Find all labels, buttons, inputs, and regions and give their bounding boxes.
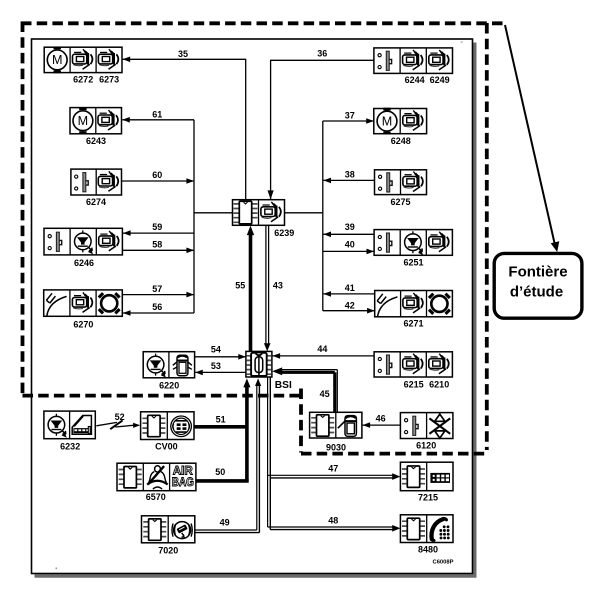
wire 43 (double line) [265, 225, 267, 345]
wire 54 [195, 356, 246, 358]
svg-text:6215: 6215 [404, 379, 424, 389]
svg-text:48: 48 [328, 515, 338, 525]
component 6120 window lifter unit [400, 413, 453, 439]
svg-text:AIR: AIR [173, 466, 194, 478]
wire link left-bus to 6239 [194, 212, 233, 214]
wire 61 [122, 119, 194, 121]
svg-text:C6008P: C6008P [433, 560, 454, 566]
svg-text:52: 52 [115, 412, 125, 422]
svg-text:51: 51 [216, 415, 226, 425]
frontier-of-study label box [494, 253, 582, 318]
svg-text:60: 60 [152, 170, 162, 180]
svg-text:49: 49 [220, 518, 230, 528]
component 6274 switch unit [71, 169, 122, 195]
frame shadow [35, 43, 475, 577]
component 7020 siren ECU [142, 516, 195, 543]
svg-text:35: 35 [178, 49, 188, 59]
svg-text:58: 58 [152, 239, 162, 249]
component 7215 display unit [400, 462, 453, 491]
dashed study boundary bottom-left segment [23, 394, 303, 398]
wire 50 (thick) [196, 479, 249, 483]
svg-text:6210: 6210 [429, 379, 449, 389]
component CV00 steering column unit [141, 412, 194, 440]
svg-text:7215: 7215 [418, 492, 438, 502]
wire 59 [123, 232, 194, 234]
wire 46 [363, 424, 401, 426]
svg-text:39: 39 [345, 222, 355, 232]
svg-text:59: 59 [152, 222, 162, 232]
svg-text:9030: 9030 [326, 443, 346, 453]
svg-text:6274: 6274 [86, 197, 106, 207]
dashed study boundary left [21, 22, 25, 395]
svg-text:61: 61 [152, 109, 162, 119]
svg-text:42: 42 [345, 301, 355, 311]
svg-text:41: 41 [345, 283, 355, 293]
wire 56 [123, 312, 194, 314]
wire 39 [323, 233, 374, 235]
svg-text:44: 44 [317, 344, 327, 354]
svg-text:54: 54 [211, 344, 221, 354]
dashed study boundary bottom-right segment [301, 452, 488, 456]
wire 49 (double line) [195, 529, 257, 531]
svg-text:55: 55 [235, 281, 245, 291]
svg-text:45: 45 [320, 389, 330, 399]
dashed study boundary top [21, 21, 505, 25]
wire 42 [323, 310, 374, 312]
svg-text:CV00: CV00 [155, 441, 178, 451]
wire 35 [123, 58, 246, 60]
wire link 6239 to right-bus [285, 212, 323, 214]
component 6215/6210 switch units [374, 352, 452, 377]
svg-text:6271: 6271 [403, 319, 423, 329]
svg-text:6244: 6244 [405, 75, 425, 85]
svg-text:37: 37 [345, 111, 355, 121]
component 9030 body ECU [310, 412, 362, 438]
wire 38 [323, 179, 374, 181]
wire thick bus to BSI bottom [245, 387, 249, 481]
svg-text:7020: 7020 [158, 545, 178, 555]
component 6271 washer/heater unit [375, 291, 453, 317]
wire 37 [323, 120, 373, 122]
component 6248 motor unit [374, 108, 427, 135]
wire 41 [323, 293, 374, 295]
component BSI control unit [246, 351, 272, 377]
svg-text:d’étude: d’étude [510, 284, 563, 301]
svg-text:6570: 6570 [146, 492, 166, 502]
component 6251 sensor unit [374, 230, 452, 256]
dashed study boundary right [485, 23, 489, 450]
wire 51 (thick) [194, 425, 247, 429]
svg-text:BSI: BSI [275, 380, 292, 391]
svg-text:6251: 6251 [403, 258, 423, 268]
svg-text:6120: 6120 [416, 441, 436, 451]
svg-text:38: 38 [345, 170, 355, 180]
svg-text:6246: 6246 [74, 258, 94, 268]
wire 58 [123, 249, 194, 251]
svg-text:43: 43 [273, 281, 283, 291]
component 6570 airbag ECU [117, 463, 196, 491]
svg-text:57: 57 [152, 284, 162, 294]
svg-text:46: 46 [376, 414, 386, 424]
svg-text:8480: 8480 [418, 544, 438, 554]
wire 45 (thick with companion line) [281, 371, 335, 374]
pointer arrowhead [551, 241, 560, 252]
svg-text:6249: 6249 [430, 75, 450, 85]
wire 40 [323, 250, 374, 252]
wire 60 [122, 180, 194, 182]
speck [56, 568, 58, 570]
wire 53 [195, 371, 246, 373]
component 8480 telephone unit [400, 515, 453, 543]
svg-text:6248: 6248 [391, 136, 411, 146]
wire 57 [122, 294, 193, 296]
svg-text:50: 50 [215, 467, 225, 477]
svg-text:6273: 6273 [99, 75, 119, 85]
svg-text:36: 36 [317, 49, 327, 59]
svg-text:40: 40 [345, 240, 355, 250]
component 6232 door module [44, 411, 95, 439]
component 6272/6273 window motors [44, 47, 122, 74]
wire 47/48 double bus vertical [267, 377, 269, 527]
component 6244/6249 window motors [374, 48, 453, 74]
svg-text:BAG: BAG [172, 477, 194, 489]
svg-text:6272: 6272 [73, 75, 93, 85]
pointer arrow line to frontier label [505, 25, 555, 247]
component 6270 washer/heater unit [44, 290, 123, 316]
svg-text:47: 47 [328, 463, 338, 473]
svg-text:Fontière: Fontière [508, 264, 567, 281]
dashed study boundary middle vertical [299, 389, 303, 453]
component 6243 motor unit [70, 107, 122, 134]
svg-text:6275: 6275 [390, 197, 410, 207]
wire 52 (radio link) [96, 422, 117, 425]
wire 55 (thick) [249, 232, 253, 351]
svg-text:56: 56 [152, 302, 162, 312]
svg-text:53: 53 [211, 361, 221, 371]
component 6246 sensor unit [44, 228, 122, 255]
wire bus left vertical [193, 120, 195, 313]
wire 48 (double line) [268, 526, 393, 528]
diagram frame [32, 39, 473, 574]
wire 47 (double line) [268, 474, 393, 476]
component 6220 alarm sensor unit [143, 352, 194, 378]
component 6275 switch unit [375, 170, 427, 195]
wire 44 [273, 355, 375, 357]
wire 36 [270, 60, 272, 199]
svg-text:6243: 6243 [86, 136, 106, 146]
svg-text:6239: 6239 [274, 228, 294, 238]
svg-text:6270: 6270 [73, 320, 93, 330]
svg-text:6220: 6220 [159, 380, 179, 390]
component 6239 control unit [233, 200, 285, 226]
svg-text:6232: 6232 [60, 441, 80, 451]
wire bus right vertical [322, 121, 324, 311]
